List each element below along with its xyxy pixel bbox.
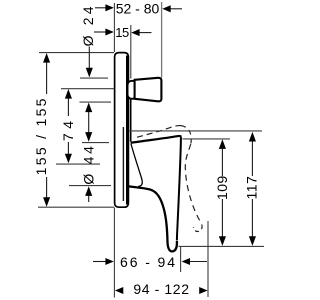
svg-text:Ø 44: Ø 44 [80,143,96,184]
ext knob bottom [80,101,112,103]
knob body [135,78,162,102]
svg-text:117: 117 [244,176,260,200]
extension lines [38,3,264,298]
dim Ø44 bottom outside arrow [88,192,90,202]
dim 15 [94,31,106,33]
svg-text:94 - 122: 94 - 122 [133,281,189,297]
ext dashed tip vertical [207,221,209,297]
ext lever-top level [183,138,231,140]
connector sleeve [128,81,137,99]
svg-text:Ø 24: Ø 24 [80,3,96,46]
dim 109 [221,146,223,176]
svg-text:52 - 80: 52 - 80 [116,1,160,17]
dim 155 [46,60,48,94]
ext neck bottom [69,185,111,187]
lever neck front edge [130,100,132,142]
dashed tip hook [193,225,202,231]
dim 94-122 [115,287,123,294]
lever right edge [177,136,181,240]
ext 74 bottom [56,163,100,165]
svg-text:109: 109 [214,175,230,200]
lever top edge [131,136,181,143]
dashed right edge [185,144,202,225]
svg-text:15: 15 [115,25,129,40]
escutcheon plate (side view) [115,53,129,208]
ext front vertical top [113,3,115,52]
dashed corner arc [181,126,191,144]
svg-text:66 - 94: 66 - 94 [120,254,177,270]
plate front thick edge [126,56,128,205]
ext tip bottom level [179,245,265,247]
ext front vertical bottom [113,208,115,298]
ext dashed-top level [130,130,263,132]
svg-text:74: 74 [60,117,76,142]
lever front slant [131,144,142,187]
dim Ø24/Ø44 shared outside arrows [88,109,90,135]
ext 74 top [61,88,114,90]
dimension lines with arrows [43,4,256,294]
ext lever top [82,142,109,144]
dashed handle open position: top edge [137,126,181,138]
svg-text:155 / 155: 155 / 155 [33,96,49,175]
dim 74 [67,96,69,116]
dim Ø24 leader [88,47,90,70]
ext knob top [80,77,108,79]
ext plate back vertical [130,25,132,79]
lever swoop and tip hook [129,186,177,251]
ext bottom of plate [38,206,114,208]
ext lever tip vertical [180,246,182,272]
wall line [161,2,163,78]
dim 52-80 [95,7,106,9]
ext top of plate [39,52,114,54]
dim 117 [251,139,253,176]
dim 66-94 [93,261,106,263]
plate inner edge [122,127,124,201]
